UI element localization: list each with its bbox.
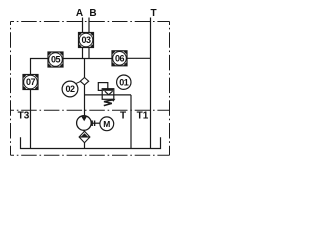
svg-text:07: 07 xyxy=(26,77,36,87)
relief valve 01 poppet V xyxy=(105,91,113,95)
relief valve 01 drain arrowhead xyxy=(111,99,115,102)
svg-text:01: 01 xyxy=(119,77,129,87)
wire port A down to valve 03 xyxy=(82,18,84,33)
svg-text:M: M xyxy=(103,119,110,129)
svg-text:02: 02 xyxy=(65,84,75,94)
port label T1 xyxy=(137,111,149,122)
wire B line below valve 03 down to bus xyxy=(88,48,90,59)
balloon 02 xyxy=(62,81,78,97)
cavity 03 (square pad with balloon) xyxy=(79,33,94,48)
svg-text:05: 05 xyxy=(51,55,61,65)
cavity 05 (square pad with balloon) xyxy=(48,52,63,67)
wire port B down to valve 03 xyxy=(88,18,90,33)
enclosure boundary (manifold block, dash-dot chain line) xyxy=(11,22,170,156)
cavity 07 (square pad with balloon) xyxy=(23,75,38,90)
relief valve 01 back square xyxy=(98,83,108,91)
wire pump suction down to check valve xyxy=(83,130,85,131)
shaft pump to coupling xyxy=(91,122,100,124)
relief valve 01 seat bar xyxy=(103,89,113,91)
wire main pressure line from node to pump xyxy=(84,85,86,117)
wire T3 return line from cavity 07 down to tank bottom xyxy=(30,90,32,150)
wire relief branch through valve 01 to outlet xyxy=(85,94,132,96)
port label A xyxy=(76,8,83,19)
motor M1 xyxy=(100,117,114,131)
wire A line below valve 03 down to bus xyxy=(82,48,84,59)
wire T drop line down to tank xyxy=(130,95,132,149)
port label B xyxy=(89,8,96,19)
wire cavity 06 right to T vertical xyxy=(127,57,151,59)
wire main pressure line from bus to node xyxy=(84,59,86,78)
svg-text:T: T xyxy=(150,8,156,19)
svg-text:T: T xyxy=(120,111,126,122)
suction check valve (diamond with filled poppet) xyxy=(79,131,90,142)
relief valve 01 front square xyxy=(102,89,114,100)
port label T3 xyxy=(18,111,30,122)
balloon 01 xyxy=(117,75,131,89)
svg-text:03: 03 xyxy=(81,35,91,45)
svg-text:B: B xyxy=(89,8,96,19)
wire bus from cavity 05 to cavity 06 xyxy=(63,58,112,60)
wire port T (top) down long vertical to tank (T1 line) xyxy=(150,18,152,150)
cavity 06 (square pad with balloon) xyxy=(112,51,127,66)
coupling (two bars) xyxy=(92,121,94,127)
port label T (tank line) xyxy=(120,111,126,122)
svg-text:T3: T3 xyxy=(18,111,30,122)
svg-text:A: A xyxy=(76,8,83,19)
wire cavity 05 left to corner and down to cavity 07 xyxy=(31,59,49,75)
wire check valve down into tank xyxy=(84,143,86,149)
relief valve 01 spring xyxy=(104,100,114,106)
pump P1 (circle with triangle) xyxy=(77,116,92,131)
svg-text:T1: T1 xyxy=(137,111,149,122)
port label T (top) xyxy=(150,8,156,19)
node gauge point (small diamond) xyxy=(80,78,88,85)
tank (reservoir) open-top outline xyxy=(21,137,161,148)
svg-text:06: 06 xyxy=(115,54,125,64)
balloon 02 leader xyxy=(76,81,81,83)
